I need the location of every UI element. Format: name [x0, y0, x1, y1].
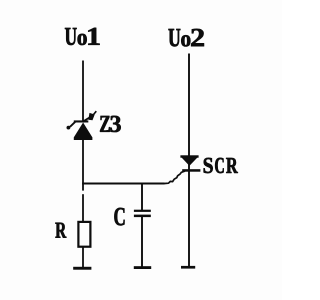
zener diode Z3: diagonal arrow shaft and filled arrowhead	[83, 118, 90, 122]
label Z3	[100, 116, 121, 132]
wire: left vertical from Uo1 to zener Z3 cathode	[82, 61, 84, 123]
capacitor C: top lead	[141, 184, 143, 211]
zener diode Z3: anode triangle (pointing up)	[74, 123, 93, 141]
capacitor C: bottom lead	[141, 217, 143, 267]
node Uo2 label	[169, 29, 204, 47]
wire: left vertical from zener anode to junction	[82, 140, 84, 191]
SCR thyristor: cathode bar	[182, 169, 200, 172]
label C	[114, 208, 124, 226]
label SCR	[204, 158, 238, 173]
wire: SCR gate (wavy rise)	[165, 171, 185, 183]
wire: left vertical short segment below gap to resistor top	[82, 194, 84, 222]
ground: middle terminal bar	[134, 266, 151, 269]
capacitor C: bottom plate	[134, 215, 151, 218]
wire: right vertical Uo2 line	[188, 54, 190, 268]
ground: left terminal bar	[73, 267, 91, 270]
resistor R body	[78, 222, 90, 247]
wire: horizontal from left wire to gate bend	[82, 183, 164, 185]
SCR thyristor: anode triangle (pointing down)	[180, 156, 198, 166]
label R	[55, 223, 66, 238]
zener diode Z3: cathode bar	[74, 120, 89, 122]
wire: resistor bottom lead	[82, 247, 84, 267]
node Uo1 label	[65, 28, 100, 45]
zener diode Z3: diagonal arrow tail with blob	[70, 122, 76, 127]
capacitor C: top plate	[134, 210, 151, 212]
ground: right terminal bar	[181, 266, 195, 269]
